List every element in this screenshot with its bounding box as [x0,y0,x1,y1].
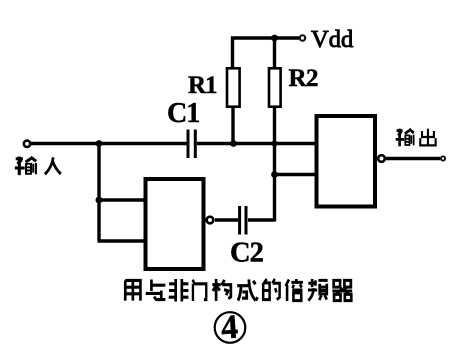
svg-text:C2: C2 [230,238,264,269]
svg-text:Vdd: Vdd [311,26,353,53]
svg-text:C1: C1 [167,98,199,129]
svg-text:4: 4 [220,308,240,346]
svg-text:R2: R2 [289,65,319,92]
svg-text:R1: R1 [188,72,217,99]
